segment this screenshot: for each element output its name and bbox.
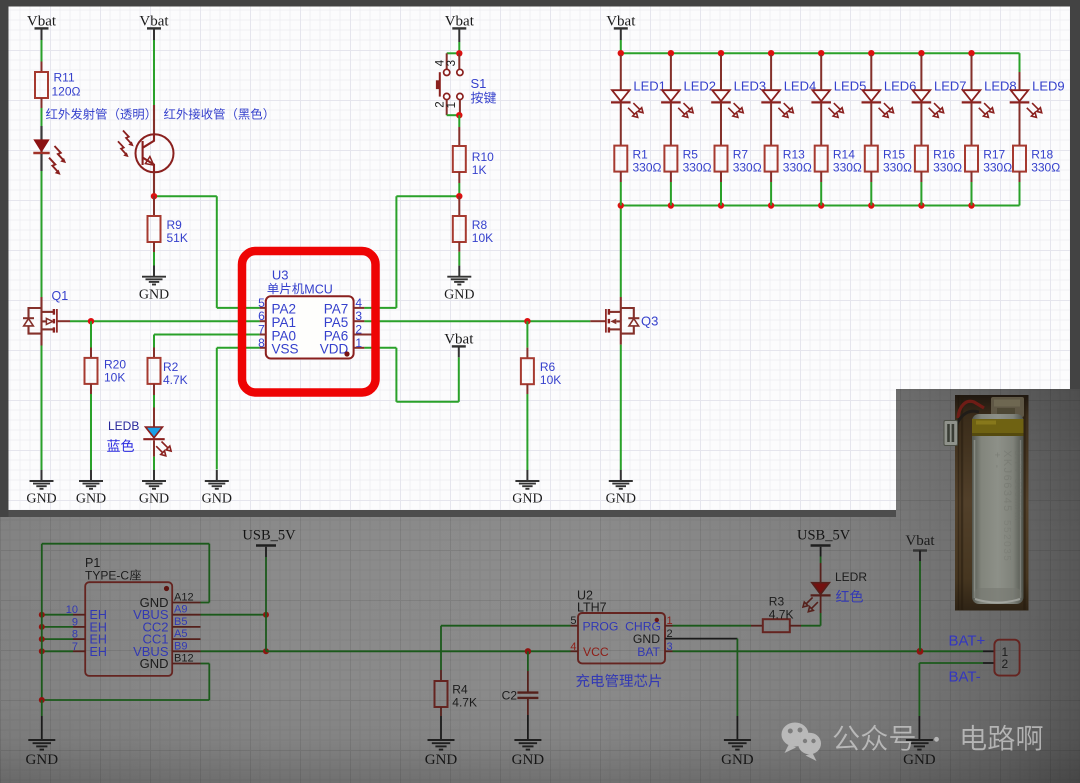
svg-text:GND: GND bbox=[444, 287, 474, 302]
svg-text:4.7K: 4.7K bbox=[452, 696, 477, 710]
svg-text:R7: R7 bbox=[733, 148, 749, 162]
svg-text:10K: 10K bbox=[472, 231, 493, 245]
svg-text:330Ω: 330Ω bbox=[833, 161, 862, 175]
svg-text:2: 2 bbox=[1002, 657, 1009, 671]
svg-text:Vbat: Vbat bbox=[606, 14, 636, 30]
svg-text:LED4: LED4 bbox=[784, 79, 817, 94]
svg-text:2: 2 bbox=[355, 323, 362, 337]
svg-text:3: 3 bbox=[667, 641, 673, 653]
svg-text:552035: 552035 bbox=[1001, 520, 1012, 562]
svg-text:3: 3 bbox=[355, 309, 362, 323]
svg-text:LED1: LED1 bbox=[633, 79, 666, 94]
svg-text:GND: GND bbox=[721, 752, 754, 768]
svg-text:VDD: VDD bbox=[320, 342, 349, 357]
svg-text:4: 4 bbox=[355, 296, 362, 310]
svg-text:GND: GND bbox=[512, 752, 545, 768]
svg-text:GND: GND bbox=[606, 492, 636, 507]
svg-text:GND: GND bbox=[76, 492, 106, 507]
svg-text:LED9: LED9 bbox=[1032, 79, 1065, 94]
svg-text:5: 5 bbox=[570, 615, 576, 627]
svg-text:LEDR: LEDR bbox=[835, 570, 867, 584]
svg-text:2: 2 bbox=[667, 628, 673, 640]
svg-text:VCC: VCC bbox=[583, 645, 609, 659]
svg-text:Q3: Q3 bbox=[641, 314, 658, 329]
svg-text:R9: R9 bbox=[167, 218, 183, 232]
svg-text:USB_5V: USB_5V bbox=[242, 528, 296, 544]
svg-text:7: 7 bbox=[72, 641, 78, 653]
svg-text:R17: R17 bbox=[983, 148, 1005, 162]
svg-text:4.7K: 4.7K bbox=[769, 608, 794, 622]
svg-text:120Ω: 120Ω bbox=[52, 85, 81, 99]
svg-text:GND: GND bbox=[903, 752, 936, 768]
svg-text:LED5: LED5 bbox=[834, 79, 867, 94]
svg-text:1K: 1K bbox=[472, 163, 487, 177]
svg-text:A12: A12 bbox=[174, 592, 194, 604]
svg-text:Vbat: Vbat bbox=[139, 14, 169, 30]
svg-text:330Ω: 330Ω bbox=[633, 161, 662, 175]
svg-text:330Ω: 330Ω bbox=[733, 161, 762, 175]
svg-text:R5: R5 bbox=[683, 148, 699, 162]
svg-text:R10: R10 bbox=[472, 150, 494, 164]
svg-text:R11: R11 bbox=[54, 71, 75, 85]
svg-text:330Ω: 330Ω bbox=[1031, 161, 1060, 175]
svg-text:USB_5V: USB_5V bbox=[797, 528, 851, 544]
svg-text:8: 8 bbox=[72, 629, 78, 641]
svg-text:C2: C2 bbox=[502, 689, 518, 703]
svg-text:VSS: VSS bbox=[272, 342, 299, 357]
svg-text:330Ω: 330Ω bbox=[983, 161, 1012, 175]
svg-text:LED3: LED3 bbox=[734, 79, 767, 94]
svg-text:GND: GND bbox=[512, 492, 542, 507]
svg-text:B5: B5 bbox=[174, 616, 187, 628]
svg-text:B9: B9 bbox=[174, 640, 187, 652]
svg-text:3: 3 bbox=[446, 60, 458, 66]
svg-text:4.7K: 4.7K bbox=[163, 373, 188, 387]
svg-text:4: 4 bbox=[570, 641, 576, 653]
svg-text:GND: GND bbox=[139, 492, 169, 507]
svg-text:51K: 51K bbox=[167, 231, 188, 245]
svg-text:5: 5 bbox=[258, 296, 265, 310]
svg-text:R16: R16 bbox=[933, 148, 955, 162]
svg-text:Q1: Q1 bbox=[52, 289, 69, 303]
svg-text:LED6: LED6 bbox=[884, 79, 917, 94]
svg-text:7: 7 bbox=[258, 323, 265, 337]
svg-text:10K: 10K bbox=[540, 373, 561, 387]
svg-text:A5: A5 bbox=[174, 628, 187, 640]
svg-text:2: 2 bbox=[435, 101, 447, 107]
svg-text:R20: R20 bbox=[104, 358, 126, 372]
svg-text:GND: GND bbox=[140, 656, 169, 671]
svg-text:Vbat: Vbat bbox=[445, 14, 475, 30]
svg-text:1: 1 bbox=[446, 102, 458, 108]
svg-text:R1: R1 bbox=[633, 148, 649, 162]
svg-text:+ -: + - bbox=[991, 452, 1002, 470]
svg-text:GND: GND bbox=[202, 492, 232, 507]
svg-text:Vbat: Vbat bbox=[27, 14, 57, 30]
svg-text:B12: B12 bbox=[174, 653, 194, 665]
svg-text:8: 8 bbox=[258, 336, 265, 350]
svg-text:330Ω: 330Ω bbox=[883, 161, 912, 175]
svg-text:R14: R14 bbox=[833, 148, 855, 162]
svg-text:1: 1 bbox=[355, 336, 362, 350]
svg-text:LED7: LED7 bbox=[934, 79, 967, 94]
svg-text:GND: GND bbox=[26, 752, 59, 768]
svg-text:A9: A9 bbox=[174, 604, 187, 616]
svg-text:U3: U3 bbox=[272, 268, 289, 283]
svg-text:Vbat: Vbat bbox=[905, 533, 935, 549]
svg-text:R4: R4 bbox=[452, 683, 468, 697]
svg-text:R2: R2 bbox=[163, 360, 179, 374]
svg-text:9: 9 bbox=[72, 616, 78, 628]
svg-text:10K: 10K bbox=[104, 371, 125, 385]
svg-text:LEDB: LEDB bbox=[108, 419, 139, 433]
svg-text:3.7V 300mAh: 3.7V 300mAh bbox=[1012, 450, 1023, 522]
svg-text:PROG: PROG bbox=[583, 619, 619, 633]
svg-text:TYPE-C: TYPE-C bbox=[85, 569, 129, 583]
svg-text:S1: S1 bbox=[471, 76, 487, 91]
svg-text:330Ω: 330Ω bbox=[683, 161, 712, 175]
svg-text:R3: R3 bbox=[769, 595, 785, 609]
svg-text:330Ω: 330Ω bbox=[783, 161, 812, 175]
svg-text:1: 1 bbox=[667, 615, 673, 627]
svg-text:R8: R8 bbox=[472, 218, 488, 232]
svg-text:Vbat: Vbat bbox=[444, 332, 474, 348]
svg-text:R13: R13 bbox=[783, 148, 805, 162]
svg-text:R18: R18 bbox=[1031, 148, 1053, 162]
svg-text:GND: GND bbox=[139, 287, 169, 302]
svg-text:EH: EH bbox=[90, 645, 107, 659]
svg-text:4: 4 bbox=[435, 59, 447, 66]
svg-text:10: 10 bbox=[66, 604, 78, 616]
svg-text:6: 6 bbox=[258, 309, 265, 323]
svg-text:GND: GND bbox=[425, 752, 458, 768]
svg-text:BAT-: BAT- bbox=[949, 668, 981, 685]
svg-text:MCU: MCU bbox=[304, 282, 332, 296]
svg-text:R6: R6 bbox=[540, 360, 556, 374]
svg-text:BAT: BAT bbox=[637, 645, 660, 659]
svg-text:BAT+: BAT+ bbox=[949, 632, 986, 649]
svg-text:330Ω: 330Ω bbox=[933, 161, 962, 175]
svg-text:LED2: LED2 bbox=[684, 79, 717, 94]
svg-text:GND: GND bbox=[26, 492, 56, 507]
svg-text:R15: R15 bbox=[883, 148, 905, 162]
